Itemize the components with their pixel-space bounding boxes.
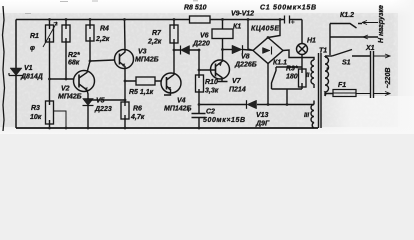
label R9 xyxy=(286,66,298,81)
transformer T1 core xyxy=(319,53,322,128)
diode V13 xyxy=(247,100,257,109)
resistor R6 xyxy=(121,81,129,128)
svg-text:Д814Д: Д814Д xyxy=(20,74,43,81)
label R10 xyxy=(205,79,219,95)
svg-text:3,3к: 3,3к xyxy=(205,88,219,95)
svg-text:МП42Б: МП42Б xyxy=(58,94,82,101)
svg-text:Т1: Т1 xyxy=(319,48,327,55)
svg-text:С2: С2 xyxy=(206,109,215,116)
svg-text:R3: R3 xyxy=(31,105,40,112)
resistor R9 xyxy=(299,67,307,89)
svg-text:~220В: ~220В xyxy=(385,68,392,89)
label R4 xyxy=(95,26,110,44)
wire parallel bottom rail xyxy=(272,89,303,105)
label III xyxy=(304,113,309,119)
label V6 xyxy=(192,33,210,48)
svg-text:Д226Б: Д226Б xyxy=(234,62,257,69)
lamp H1 xyxy=(297,44,308,55)
diode V8 xyxy=(232,45,253,54)
svg-text:2,2к: 2,2к xyxy=(147,39,162,46)
svg-text:F1: F1 xyxy=(338,82,346,89)
transistor V3 xyxy=(115,20,134,82)
svg-text:К1.2: К1.2 xyxy=(340,12,354,19)
label K1.2 xyxy=(340,12,354,19)
zener V1 xyxy=(9,68,23,78)
svg-text:R7: R7 xyxy=(152,30,162,37)
wire base V2 xyxy=(50,78,75,80)
svg-text:V4: V4 xyxy=(177,98,186,105)
svg-text:R4: R4 xyxy=(100,26,109,33)
label R1 xyxy=(30,33,39,52)
wire emitters xyxy=(88,99,125,101)
svg-text:180: 180 xyxy=(286,74,298,81)
wire bottom bus xyxy=(16,127,318,129)
wire minus rail xyxy=(199,104,314,106)
wire top bus xyxy=(16,19,302,21)
wire emitter net xyxy=(223,49,233,51)
resistor R7 xyxy=(170,20,178,51)
connector X1 xyxy=(371,51,391,98)
svg-text:φ: φ xyxy=(30,45,35,52)
fuse F1 xyxy=(333,90,371,97)
photoresistor R1 xyxy=(43,20,57,80)
svg-text:Н нагрузке: Н нагрузке xyxy=(378,5,385,43)
svg-text:П214: П214 xyxy=(229,87,246,94)
wire base V7 xyxy=(199,69,216,71)
svg-text:III: III xyxy=(304,113,309,119)
resistor R5 xyxy=(125,77,162,85)
svg-text:500мк×15В: 500мк×15В xyxy=(203,117,245,124)
label R5 xyxy=(129,89,154,96)
svg-text:МП142Б: МП142Б xyxy=(164,106,192,113)
wire bus to bridge left xyxy=(248,20,253,51)
label K1.1 xyxy=(273,60,287,67)
label V8 xyxy=(234,54,257,69)
diode V5 xyxy=(83,98,94,128)
label V13 xyxy=(255,112,270,128)
svg-text:Д223: Д223 xyxy=(94,106,112,113)
bridge V9-V12 xyxy=(253,38,283,64)
wire lamp to parallel section xyxy=(301,55,303,68)
svg-text:R6: R6 xyxy=(133,106,142,113)
label X1 xyxy=(365,45,375,52)
svg-text:R5 1,1к: R5 1,1к xyxy=(129,89,154,96)
svg-text:V2: V2 xyxy=(61,86,70,93)
svg-text:V3: V3 xyxy=(138,49,147,56)
label 220V xyxy=(385,68,392,89)
paper specks xyxy=(25,1,198,14)
svg-text:4,7к: 4,7к xyxy=(130,114,145,121)
svg-text:V9-V12: V9-V12 xyxy=(231,11,254,18)
resistor R10 xyxy=(196,50,204,105)
label K1 xyxy=(233,24,241,31)
wire base V3 xyxy=(90,60,115,61)
label V7 xyxy=(229,78,246,94)
wire parallel top rail xyxy=(276,66,302,68)
capacitor C1 xyxy=(285,16,295,24)
svg-text:V8: V8 xyxy=(241,54,250,61)
label V2 xyxy=(58,86,82,101)
svg-text:II: II xyxy=(306,73,310,79)
transistor V4 xyxy=(161,50,181,95)
label V9-V12 xyxy=(231,11,254,18)
capacitor C2 xyxy=(187,105,206,129)
svg-text:Д9Г: Д9Г xyxy=(255,121,270,128)
svg-text:V7: V7 xyxy=(232,78,242,85)
svg-text:МП42Б: МП42Б xyxy=(135,57,159,64)
svg-text:Х1: Х1 xyxy=(365,45,375,52)
label C2 xyxy=(203,109,245,125)
label V1 xyxy=(20,65,43,81)
svg-text:V13: V13 xyxy=(256,112,269,119)
resistor R3 xyxy=(46,79,67,128)
svg-text:R9*: R9* xyxy=(286,66,298,73)
svg-text:R8 510: R8 510 xyxy=(184,5,207,12)
label V4 xyxy=(164,98,192,113)
transformer winding III xyxy=(311,101,314,129)
wire bridge bottom xyxy=(267,64,269,105)
label K nagruzke xyxy=(378,5,385,43)
label V5 xyxy=(94,98,112,114)
switch S1 xyxy=(332,50,371,57)
svg-text:R10: R10 xyxy=(205,79,218,86)
svg-text:S1: S1 xyxy=(342,60,351,67)
contact K1.2 xyxy=(330,21,378,56)
label H1 xyxy=(307,38,316,45)
resistor R2 xyxy=(62,20,70,80)
label R3 xyxy=(30,105,42,121)
resistor R4 xyxy=(86,20,94,62)
svg-text:10к: 10к xyxy=(30,114,42,121)
svg-text:R2*: R2* xyxy=(68,52,80,59)
label V3 xyxy=(135,49,159,64)
transistor V2 xyxy=(74,61,95,100)
wire left rail xyxy=(15,20,17,129)
svg-text:68к: 68к xyxy=(68,60,80,67)
label R2 xyxy=(68,52,80,67)
label T1 xyxy=(319,48,327,55)
svg-text:КЦ405Е: КЦ405Е xyxy=(251,26,279,33)
label C1 xyxy=(260,5,316,12)
svg-text:Д220: Д220 xyxy=(192,41,210,48)
svg-text:К1: К1 xyxy=(233,24,241,31)
contact K1.1 xyxy=(272,67,277,89)
label I xyxy=(326,68,328,74)
svg-text:V6: V6 xyxy=(200,33,209,40)
resistor R8 xyxy=(189,16,210,23)
label R7 xyxy=(147,30,162,46)
wire bus right end down to lamp xyxy=(301,20,303,44)
label KC405E xyxy=(251,26,279,33)
diode V6 xyxy=(174,46,199,55)
svg-text:V5: V5 xyxy=(96,98,105,105)
label F1 xyxy=(338,82,346,89)
label R8 xyxy=(184,5,207,12)
svg-text:Н1: Н1 xyxy=(307,38,316,45)
svg-text:V1: V1 xyxy=(24,65,33,72)
svg-text:R1: R1 xyxy=(30,33,39,40)
svg-text:С1 500мк×15В: С1 500мк×15В xyxy=(260,5,316,12)
label S1 xyxy=(342,60,351,67)
relay coil K1 xyxy=(212,20,233,50)
transistor V7 xyxy=(211,50,230,82)
wire bridge right to transformer xyxy=(283,50,314,60)
label R6 xyxy=(130,106,145,122)
torn page left edge xyxy=(3,6,5,131)
svg-text:2,2к: 2,2к xyxy=(95,36,110,43)
wire bus to bridge top xyxy=(268,20,280,38)
transformer primary I xyxy=(325,56,333,96)
paper background xyxy=(0,0,414,134)
transformer winding II xyxy=(311,60,314,88)
wire load line xyxy=(330,35,378,39)
label II xyxy=(306,73,310,79)
